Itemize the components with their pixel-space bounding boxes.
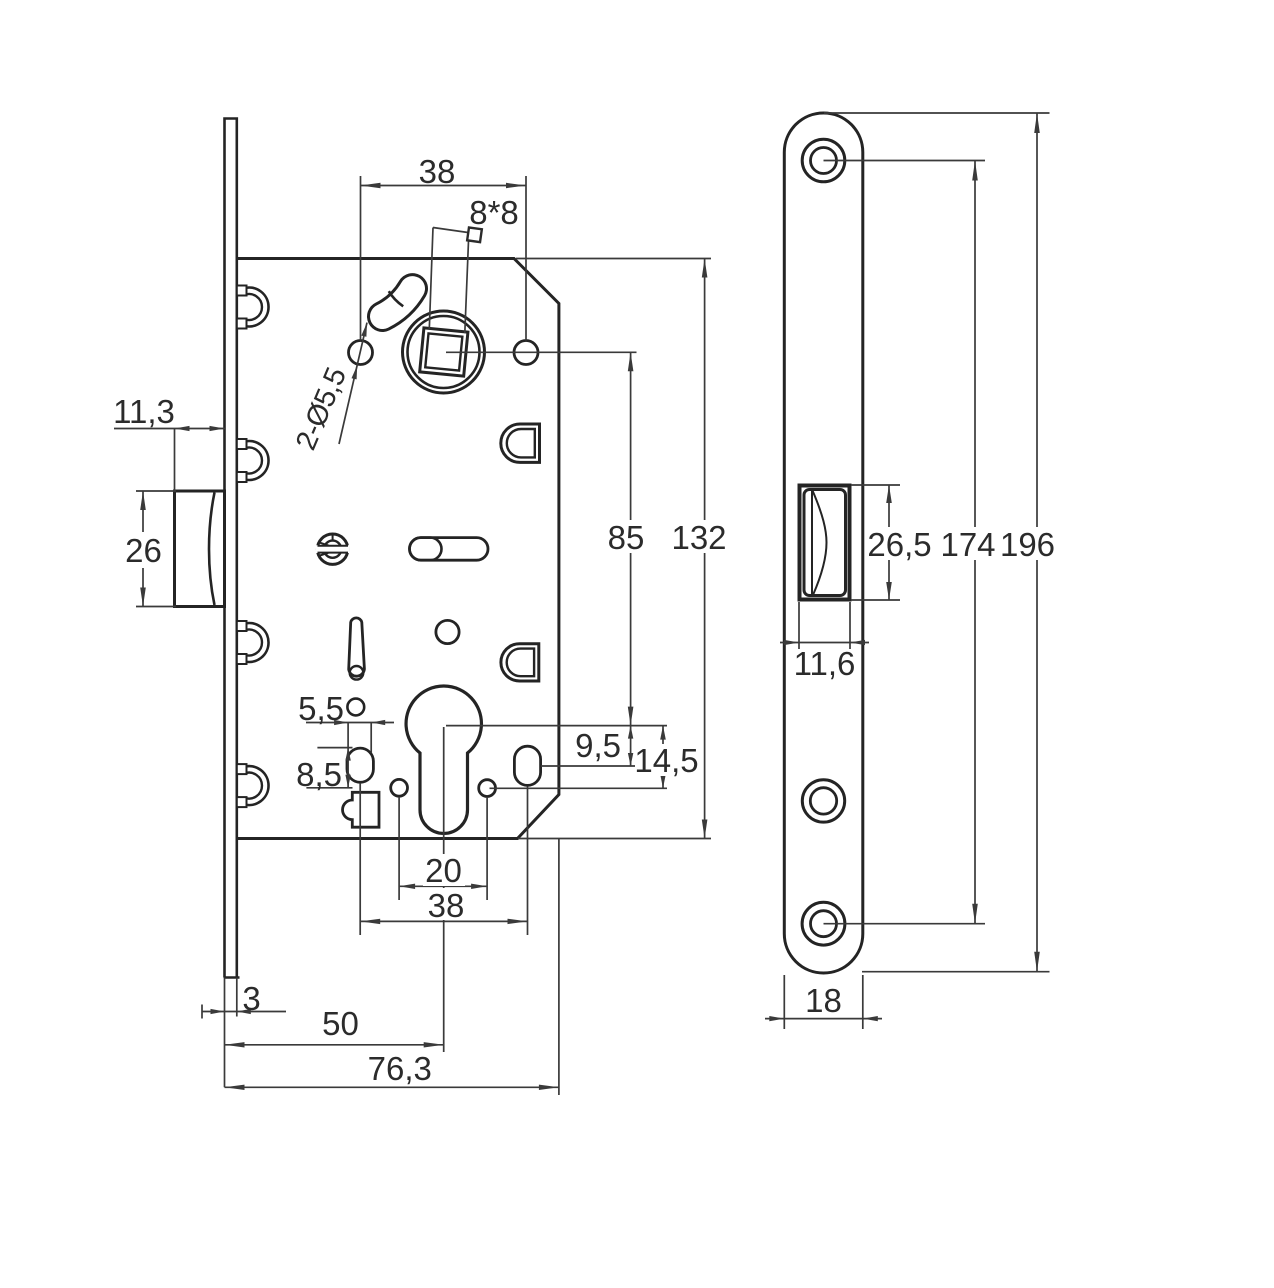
dimension 132 <box>516 259 711 839</box>
oval slot left <box>347 748 373 782</box>
dimension 196 <box>824 113 1050 972</box>
teardrop slot <box>349 618 365 680</box>
label 26 <box>124 532 163 569</box>
spring clip 3 <box>237 621 269 664</box>
D-slot upper <box>501 424 540 462</box>
kidney-shaped slot <box>383 289 413 317</box>
label 26,5 <box>867 526 931 563</box>
label 38 bottom <box>425 887 467 924</box>
dimension 26 <box>136 491 176 607</box>
dimension 11,3 <box>114 426 225 491</box>
small hole above left oval <box>347 699 364 716</box>
dimension 5,5 <box>306 720 394 753</box>
dimension 8,5 <box>306 723 352 788</box>
label 132 <box>671 519 729 556</box>
svg-text:5,5: 5,5 <box>298 690 344 727</box>
svg-text:85: 85 <box>608 519 645 556</box>
dimension 11,6 <box>780 602 869 649</box>
fixing hole right (O5.5) <box>514 341 538 365</box>
svg-text:196: 196 <box>1000 526 1055 563</box>
adjusting screw head <box>316 534 350 565</box>
lock body outline <box>237 259 559 839</box>
dimension 174 <box>824 161 986 924</box>
label 14,5 <box>634 742 699 779</box>
dimension 3 <box>202 978 286 1088</box>
svg-text:8*8: 8*8 <box>469 194 519 231</box>
label 20 <box>423 852 465 889</box>
spring clip 2 <box>237 439 269 482</box>
svg-text:132: 132 <box>671 519 726 556</box>
euro cylinder hole <box>406 686 481 833</box>
svg-text:38: 38 <box>428 887 465 924</box>
svg-text:76,3: 76,3 <box>368 1050 432 1087</box>
spindle hub circles <box>403 311 485 393</box>
dimension 85 <box>446 352 637 725</box>
leader 2-O5,5 <box>339 323 367 444</box>
small hole right of cylinder <box>479 780 496 797</box>
dimension 14,5 <box>490 726 668 789</box>
capsule slot <box>410 538 489 561</box>
faceplate (front view) <box>784 113 863 973</box>
svg-text:11,6: 11,6 <box>794 645 856 682</box>
dimension 20 <box>399 797 487 900</box>
dimension 9,5 <box>446 726 667 766</box>
screw hole middle <box>802 780 844 822</box>
fixing hole left (O5.5) <box>349 341 373 365</box>
svg-text:18: 18 <box>805 982 842 1019</box>
dimension 38 (bottom) <box>360 783 527 935</box>
svg-text:26: 26 <box>125 532 162 569</box>
spindle square hole 8x8 <box>420 328 468 376</box>
svg-text:3: 3 <box>242 980 260 1017</box>
screw hole bottom <box>802 902 845 945</box>
svg-text:8,5: 8,5 <box>296 756 342 793</box>
svg-text:26,5: 26,5 <box>867 526 931 563</box>
spring clip 1 <box>237 286 269 329</box>
dimension 38 (top) <box>361 176 527 341</box>
latch opening <box>800 486 850 600</box>
svg-text:9,5: 9,5 <box>575 727 621 764</box>
dimension 76,3 <box>225 839 559 1096</box>
screw hole top <box>802 139 845 182</box>
svg-text:174: 174 <box>940 526 995 563</box>
oval slot right <box>514 746 540 785</box>
label 196 <box>1000 526 1056 563</box>
label 85 <box>606 519 648 556</box>
dimension 26,5 <box>851 485 900 600</box>
svg-text:20: 20 <box>425 852 462 889</box>
faceplate (side view) <box>225 117 240 977</box>
locking pawl <box>343 792 379 827</box>
dimension 8*8 leader and square symbol <box>429 227 482 333</box>
label 174 <box>940 526 996 563</box>
svg-text:38: 38 <box>419 153 456 190</box>
dimension 50 <box>225 727 444 1052</box>
center hole <box>436 620 459 643</box>
small hole left of cylinder <box>391 779 408 796</box>
dimension 18 <box>765 975 882 1029</box>
latch bolt (side view) <box>175 491 225 607</box>
svg-text:14,5: 14,5 <box>634 742 698 779</box>
D-slot lower <box>501 644 539 681</box>
svg-text:11,3: 11,3 <box>113 393 175 430</box>
spring clip 4 <box>237 764 269 807</box>
svg-text:50: 50 <box>322 1005 359 1042</box>
